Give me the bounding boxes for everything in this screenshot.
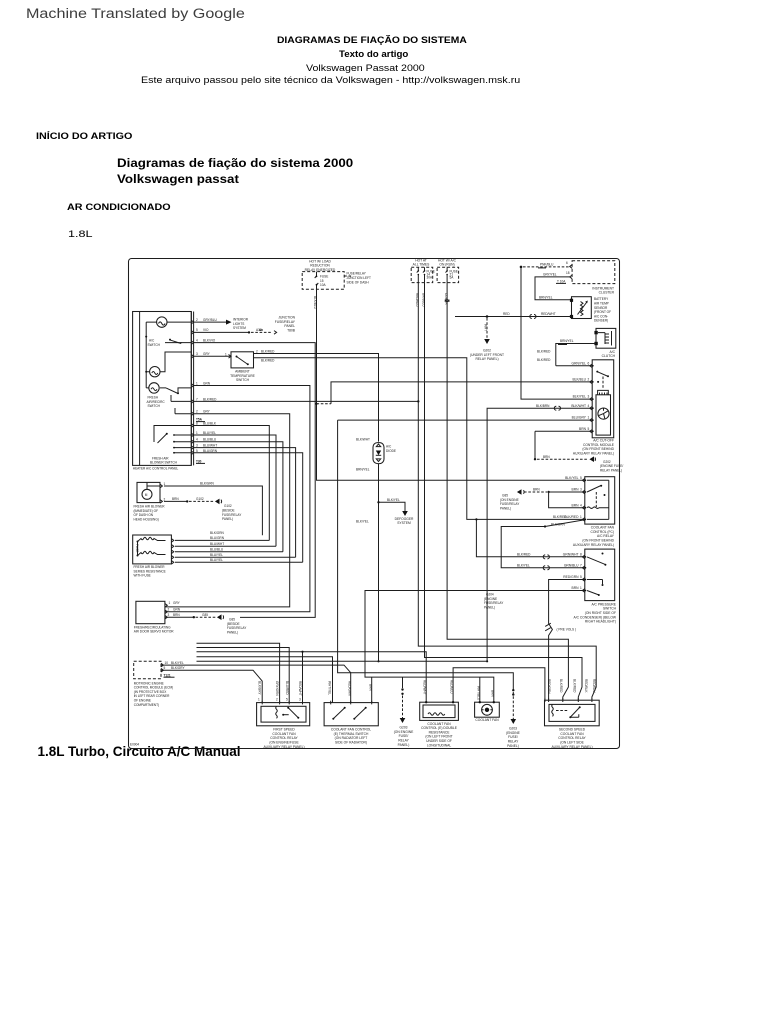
svg-text:2: 2	[196, 410, 198, 414]
svg-text:BLU/YEL: BLU/YEL	[210, 553, 223, 557]
svg-text:E0904: E0904	[130, 743, 139, 747]
wire row 401.4 BLK/RED: joins fuse2 vertical at 418.3	[194, 400, 418, 402]
svg-text:ON (RUN): ON (RUN)	[439, 263, 454, 267]
control panel inner rail	[139, 312, 141, 466]
svg-text:GRN/WHT: GRN/WHT	[563, 553, 579, 557]
svg-text:3: 3	[580, 488, 582, 492]
coolant fan control FC relay	[585, 477, 615, 524]
lamp L3	[149, 383, 159, 393]
svg-text:BLK/GRY: BLK/GRY	[171, 666, 185, 670]
svg-text:1: 1	[580, 586, 582, 590]
svg-text:SWITCH: SWITCH	[148, 404, 161, 408]
svg-text:5: 5	[164, 666, 166, 670]
svg-text:COMPARTMENT): COMPARTMENT)	[134, 703, 159, 707]
svg-text:BLU/GRY: BLU/GRY	[572, 416, 587, 420]
svg-text:BLK/GRY: BLK/GRY	[258, 681, 262, 695]
bottom bundle horizontals from connector side	[197, 643, 280, 702]
svg-text:2: 2	[256, 350, 258, 354]
svg-text:COOLANT FAN: COOLANT FAN	[475, 718, 499, 722]
FC relay internals	[587, 486, 601, 493]
svg-text:PANEL): PANEL)	[222, 517, 233, 521]
title lines	[277, 35, 467, 45]
svg-text:BRN: BRN	[368, 684, 372, 691]
diode wire down with defogger branch	[378, 464, 380, 662]
svg-text:3: 3	[168, 613, 170, 617]
a/c pressure switch	[585, 549, 615, 601]
svg-text:RED/BLU: RED/BLU	[449, 680, 453, 694]
svg-text:BLK/RED: BLK/RED	[553, 515, 567, 519]
module pin6 row from clutch drop	[556, 365, 592, 367]
dashed PNK wire with node	[520, 266, 523, 269]
svg-text:BRN: BRN	[491, 690, 495, 697]
blower BLK/GRN wire to resistor row1 elbow	[164, 486, 262, 535]
svg-text:BLK/RED: BLK/RED	[261, 358, 275, 362]
ECM row B wire to relay1 pin1	[161, 670, 262, 702]
fresh air blower	[137, 482, 160, 502]
svg-text:PANEL): PANEL)	[227, 631, 238, 635]
svg-text:HEAD HOUSING): HEAD HOUSING)	[134, 517, 159, 521]
pressure switch internals	[602, 553, 604, 555]
connector chevrons and pin labels	[191, 320, 193, 454]
svg-text:8: 8	[196, 421, 198, 425]
svg-text:18: 18	[566, 271, 570, 275]
module pin3 row from x521 vertical	[521, 268, 592, 400]
svg-text:SIDE OF RADIATOR): SIDE OF RADIATOR)	[335, 741, 367, 745]
svg-text:RED/WHT: RED/WHT	[541, 312, 556, 316]
svg-text:BLK/YEL: BLK/YEL	[565, 476, 579, 480]
svg-text:BRN/BLU: BRN/BLU	[421, 293, 425, 307]
relay1 pin ticks	[262, 701, 302, 705]
svg-text:4: 4	[580, 503, 582, 507]
svg-text:AUXILIARY RELAY PANEL): AUXILIARY RELAY PANEL)	[263, 745, 304, 749]
a/c cut-off control module	[592, 360, 614, 438]
module pin4 row BLK/BRN from x487 vertical	[487, 408, 592, 661]
svg-text:GRY: GRY	[173, 601, 181, 605]
svg-text:BLK/YEL: BLK/YEL	[171, 661, 184, 665]
svg-text:VIO: VIO	[203, 328, 209, 332]
svg-text:BLK/RED: BLK/RED	[537, 358, 551, 362]
wire row 413.7 GRY: down at 289.7 to air door motor pin1	[165, 414, 290, 607]
lamp1 to connector wire	[167, 321, 191, 323]
svg-text:BLU/YEL: BLU/YEL	[210, 558, 223, 562]
svg-text:PANEL): PANEL)	[398, 743, 410, 747]
relay1 first speed coolant fan control relay	[257, 703, 310, 726]
G203 ground chain	[512, 689, 514, 691]
svg-text:BRN: BRN	[543, 455, 550, 459]
svg-text:( PRE VOLS ): ( PRE VOLS )	[557, 628, 577, 632]
module pin1 row from x337.6 vertical, down to G203 chain	[338, 420, 593, 690]
svg-text:ALL TIMES: ALL TIMES	[413, 263, 430, 267]
svg-text:WHT/YEL: WHT/YEL	[327, 681, 331, 695]
svg-text:BLK/WHT: BLK/WHT	[571, 404, 586, 408]
svg-text:5: 5	[588, 427, 590, 431]
wire row3 BLK/VIO long: down at 315.2 to BRN air-door line	[194, 343, 315, 618]
blower BRN to G102	[164, 500, 187, 502]
RED/GRN wire down with break to relay3 pin1	[549, 580, 585, 701]
svg-text:3: 3	[196, 352, 198, 356]
svg-text:WITH FUSE: WITH FUSE	[134, 574, 151, 578]
svg-text:LONGITUDINAL: LONGITUDINAL	[427, 743, 452, 747]
svg-text:3: 3	[299, 697, 301, 701]
connector symbols on rows 556.9/567.8	[543, 555, 549, 559]
svg-text:BRN: BRN	[579, 427, 587, 431]
section title	[117, 156, 353, 170]
svg-text:2: 2	[276, 697, 278, 701]
svg-text:GRY: GRY	[203, 410, 211, 414]
svg-text:BLU/WHT: BLU/WHT	[203, 444, 217, 448]
resistor right pin riser	[453, 668, 545, 703]
svg-text:RED/GRN: RED/GRN	[547, 679, 551, 694]
svg-text:BLU/GRN: BLU/GRN	[210, 536, 225, 540]
svg-text:WHT/BLU: WHT/BLU	[477, 686, 481, 701]
svg-text:PANEL): PANEL)	[500, 506, 511, 510]
svg-text:5: 5	[580, 575, 582, 579]
svg-text:BLU/RED: BLU/RED	[285, 681, 289, 695]
svg-text:AUXILIARY RELAY PANEL): AUXILIARY RELAY PANEL)	[573, 452, 614, 456]
1.8L	[68, 229, 93, 239]
BLK/BLU row to module pin2	[331, 382, 592, 404]
svg-text:BLK/RED: BLK/RED	[573, 679, 577, 693]
svg-text:BLK/GRN: BLK/GRN	[210, 531, 225, 535]
svg-text:BLK/YEL: BLK/YEL	[573, 395, 587, 399]
fuse box 3 hot w/ a/c	[437, 267, 459, 282]
a/c clutch	[596, 328, 616, 348]
svg-text:RELAY PANEL): RELAY PANEL)	[600, 468, 622, 472]
svg-text:CLUTCH: CLUTCH	[602, 354, 616, 358]
svg-text:PANEL): PANEL)	[507, 744, 519, 748]
svg-text:5: 5	[196, 328, 198, 332]
svg-text:BRN: BRN	[533, 488, 540, 492]
module pin5 BRN to G202 dashed	[535, 431, 592, 459]
svg-text:1: 1	[169, 601, 171, 605]
svg-text:7: 7	[196, 397, 198, 401]
svg-text:BRN/YEL: BRN/YEL	[560, 339, 574, 343]
svg-text:GRN: GRN	[173, 608, 181, 612]
svg-text:SYSTEM: SYSTEM	[233, 326, 246, 330]
svg-text:RED/GRN: RED/GRN	[347, 681, 351, 696]
fuse box 2 hot at all times	[411, 267, 433, 282]
svg-text:PANEL): PANEL)	[484, 605, 495, 609]
svg-text:BLK/RED: BLK/RED	[564, 515, 579, 519]
battery air temp sensor	[572, 297, 592, 319]
svg-text:1: 1	[164, 482, 166, 486]
svg-text:1: 1	[196, 381, 198, 385]
svg-text:BLK/RED: BLK/RED	[517, 552, 531, 556]
wire row5 GRN: down at 309.9 to air door motor pin2	[165, 386, 310, 612]
fuse2 wires down	[418, 283, 596, 701]
svg-text:T80B: T80B	[287, 329, 296, 333]
svg-text:BLK/RED: BLK/RED	[559, 679, 563, 693]
svg-text:BLU/GRN: BLU/GRN	[203, 449, 218, 453]
svg-text:BLK/VIO: BLK/VIO	[203, 339, 216, 343]
svg-text:10: 10	[165, 661, 169, 665]
module fan circle	[598, 408, 609, 419]
svg-text:BLU/WHT: BLU/WHT	[210, 542, 224, 546]
svg-text:PNK/BLU: PNK/BLU	[540, 262, 554, 266]
svg-text:BLK/YEL: BLK/YEL	[517, 563, 530, 567]
svg-text:10A: 10A	[320, 283, 326, 287]
svg-text:GRY/YEL: GRY/YEL	[543, 273, 557, 277]
fuse1 symbol	[315, 272, 319, 290]
fuse box 1 load reduction	[302, 272, 344, 290]
bottom caption	[38, 744, 241, 759]
svg-text:4: 4	[588, 404, 590, 408]
svg-text:BLK/YEL: BLK/YEL	[387, 498, 400, 502]
blower rows to resistor elbows	[194, 426, 269, 541]
svg-text:2: 2	[168, 608, 170, 612]
svg-text:RELAY ENERGIZED: RELAY ENERGIZED	[305, 268, 336, 272]
svg-text:RED/GRN: RED/GRN	[563, 575, 579, 579]
wire row4 GRY into ambient switch	[194, 355, 231, 357]
module switch	[597, 372, 608, 377]
blower switch sub-box	[154, 426, 191, 443]
svg-text:8: 8	[580, 553, 582, 557]
blower switch	[158, 434, 168, 444]
wire row2 VIO dashed to panel	[194, 331, 249, 333]
svg-text:BLK/YEL: BLK/YEL	[356, 520, 369, 524]
svg-text:SIDE OF DASH: SIDE OF DASH	[347, 280, 370, 284]
lamp L2	[150, 367, 160, 377]
svg-text:SWITCH: SWITCH	[148, 343, 161, 347]
BLK/RED row to FC pin1 + BLK/GRN diagonal	[501, 527, 585, 568]
svg-text:BLK/RED: BLK/RED	[203, 397, 217, 401]
svg-text:1: 1	[258, 697, 260, 701]
svg-text:M: M	[145, 493, 148, 497]
svg-text:BLK/RED: BLK/RED	[261, 350, 275, 354]
ambient out2 wire long: down at 466.8 to FC relay pin1 and pressure switch pin8	[254, 358, 585, 557]
svg-text:2: 2	[588, 378, 590, 382]
svg-text:3: 3	[196, 444, 198, 448]
svg-text:1: 1	[196, 431, 198, 435]
fuse3 wire down to relay3 pin2	[447, 283, 568, 701]
ambient temperature switch	[231, 352, 254, 368]
svg-text:BRN/YEL: BRN/YEL	[539, 295, 553, 299]
relay2 coolant fan thermal switch	[324, 703, 378, 726]
svg-text:5: 5	[196, 449, 198, 453]
svg-text:BLK/GRN: BLK/GRN	[200, 482, 215, 486]
svg-text:4: 4	[196, 438, 198, 442]
svg-text:RED: RED	[503, 312, 510, 316]
cluster wire2 L to temp sensor	[535, 277, 572, 300]
cluster pin chevrons	[570, 265, 572, 279]
svg-text:BLK/BRN: BLK/BRN	[536, 404, 550, 408]
svg-text:HEATER A/C CONTROL PANEL: HEATER A/C CONTROL PANEL	[133, 467, 179, 471]
svg-text:BLK/RED: BLK/RED	[537, 349, 551, 353]
svg-text:7: 7	[580, 563, 582, 567]
svg-text:RIGHT HEADLIGHT): RIGHT HEADLIGHT)	[585, 620, 616, 624]
svg-text:RED/BLU: RED/BLU	[415, 293, 419, 307]
inicio do artigo	[36, 131, 132, 141]
svg-text:COMPR: COMPR	[444, 293, 448, 305]
svg-text:GRN/BLU: GRN/BLU	[564, 563, 579, 567]
a/c diode	[373, 443, 384, 464]
svg-text:SYSTEM: SYSTEM	[397, 521, 411, 525]
svg-text:30A: 30A	[427, 275, 433, 279]
wire break symbol (PRE VOLS) on RED/GRN drop	[545, 623, 551, 631]
svg-text:1: 1	[580, 515, 582, 519]
fresh air blower series resistance	[133, 535, 172, 564]
relay3 second speed coolant fan control relay	[545, 700, 600, 726]
svg-text:BLOWER SWITCH: BLOWER SWITCH	[150, 461, 178, 465]
svg-text:G102: G102	[196, 497, 204, 501]
svg-text:RED/WHT: RED/WHT	[298, 681, 302, 696]
svg-text:BLU/YEL: BLU/YEL	[203, 431, 216, 435]
svg-text:CLUSTER: CLUSTER	[599, 291, 615, 295]
diagram outer border	[129, 259, 620, 749]
panel internal bus	[146, 322, 156, 388]
svg-text:BLK/WHT: BLK/WHT	[356, 438, 370, 442]
svg-text:AIR DOOR SERVO MOTOR: AIR DOOR SERVO MOTOR	[134, 630, 175, 634]
G202 ground below node	[486, 318, 488, 339]
ar condicionado	[67, 202, 171, 212]
svg-text:FUSE: FUSE	[135, 544, 139, 552]
svg-text:DENSER): DENSER)	[594, 319, 608, 323]
svg-text:BLU/BLU: BLU/BLU	[210, 548, 224, 552]
svg-text:SWITCH: SWITCH	[236, 378, 250, 382]
motronic ECM dashed box	[134, 661, 161, 679]
svg-text:A32: A32	[256, 328, 262, 332]
svg-text:BLK/BLU: BLK/BLU	[313, 296, 317, 310]
svg-text:5: 5	[580, 476, 582, 480]
svg-text:BLU/BLU: BLU/BLU	[203, 438, 217, 442]
svg-text:BRN: BRN	[172, 497, 179, 501]
svg-text:3: 3	[588, 395, 590, 399]
BRN G85 dashed + pins 3/4 wiring	[547, 491, 549, 493]
svg-text:RELAY PANEL): RELAY PANEL)	[475, 357, 498, 361]
instrument cluster dashed box	[572, 261, 615, 284]
svg-text:1: 1	[588, 416, 590, 420]
heater a/c control panel box	[133, 312, 192, 466]
svg-text:5: 5	[286, 697, 288, 701]
svg-text:RED/BLU: RED/BLU	[592, 679, 596, 693]
BRN/YEL wire to clutch	[556, 344, 596, 366]
svg-text:AUXILIARY RELAY PANEL): AUXILIARY RELAY PANEL)	[573, 543, 614, 547]
svg-text:BRN: BRN	[572, 488, 580, 492]
svg-text:6: 6	[566, 261, 568, 265]
svg-text:1: 1	[225, 353, 227, 357]
lamp L1	[157, 317, 167, 327]
svg-text:4: 4	[196, 339, 198, 343]
svg-text:BRN/YEL: BRN/YEL	[356, 468, 370, 472]
G203 ground chain right of relay2	[402, 677, 404, 688]
header: machine translated	[26, 6, 245, 22]
svg-text:GRY: GRY	[203, 352, 211, 356]
svg-text:2: 2	[196, 318, 198, 322]
svg-text:BLK/BLU: BLK/BLU	[572, 378, 586, 382]
svg-text:GRY/GRN: GRY/GRN	[275, 681, 279, 696]
connector column	[191, 312, 193, 466]
resistor row wires to elbows	[175, 540, 303, 562]
svg-text:BRN: BRN	[173, 613, 180, 617]
svg-text:DIODE: DIODE	[386, 449, 396, 453]
svg-text:AUXILIARY RELAY PANEL): AUXILIARY RELAY PANEL)	[551, 745, 592, 749]
RED row with node and connector	[455, 316, 572, 318]
ECM row A wire to relay2 pin2	[161, 665, 351, 703]
coolant fan resistance box	[420, 702, 459, 720]
fuse1 wire down BLK/BLU then right to FC relay pin1	[317, 289, 585, 480]
coolant fan motor	[475, 702, 500, 717]
svg-text:GRN/YEL: GRN/YEL	[572, 361, 587, 365]
svg-text:BRN: BRN	[572, 586, 580, 590]
svg-text:5A: 5A	[450, 275, 455, 279]
svg-text:GRN: GRN	[203, 381, 211, 385]
svg-text:RED/WHT: RED/WHT	[423, 680, 427, 695]
svg-text:A/C: A/C	[149, 339, 155, 343]
svg-text:WHT: WHT	[484, 324, 488, 331]
svg-text:BLK/GRN: BLK/GRN	[551, 523, 566, 527]
panel wire to 413 row	[175, 408, 191, 414]
module pin chevrons	[590, 364, 592, 433]
svg-text:BLU/BLK: BLU/BLK	[203, 421, 217, 425]
svg-text:GRY/BLU: GRY/BLU	[203, 318, 217, 322]
ambient out1 wire to A/C diode chain	[254, 354, 379, 442]
BRN long row to fan pin1 and relay2 pin3	[365, 591, 585, 703]
svg-text:BRN: BRN	[572, 503, 580, 507]
wire row1 GRY/BLU to interior lights	[194, 321, 226, 323]
svg-text:RED/BLK: RED/BLK	[584, 679, 588, 693]
svg-text:G85: G85	[202, 613, 208, 617]
fresh/recirc air door servo motor	[136, 601, 165, 623]
svg-text:6: 6	[588, 361, 590, 365]
